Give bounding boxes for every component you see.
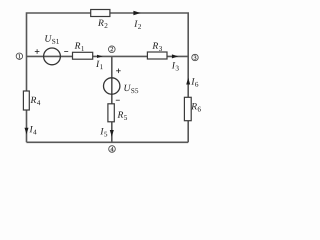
resistor R1 — [73, 43, 93, 60]
current arrow I5 — [100, 128, 114, 137]
node 2 — [109, 46, 116, 53]
current arrow I2 — [133, 11, 141, 29]
wire center branch (node 2 to node 4) — [111, 56, 113, 142]
resistor R6 — [184, 97, 200, 120]
wire outer loop (top, left, right edges) — [27, 13, 189, 142]
current arrow I3 — [172, 54, 179, 70]
current arrow I1 — [96, 55, 103, 69]
node 4 — [109, 146, 116, 153]
voltage source US5 — [104, 69, 139, 101]
node 1 — [16, 53, 22, 59]
resistor R2 — [91, 10, 110, 29]
wire bottom edge — [27, 141, 189, 143]
current arrow I6 — [186, 78, 198, 87]
wire middle horizontal (node 1 to node 3) — [27, 55, 189, 57]
voltage source US1 — [35, 35, 68, 64]
resistor R5 — [108, 104, 127, 122]
resistor R4 — [23, 91, 40, 110]
current arrow I4 — [25, 126, 37, 134]
node 3 — [192, 54, 198, 60]
resistor R3 — [147, 43, 167, 59]
